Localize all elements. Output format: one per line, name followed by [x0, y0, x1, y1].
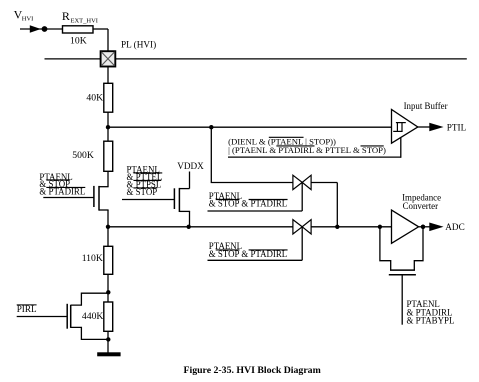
svg-text:PL (HVI): PL (HVI): [121, 40, 156, 50]
svg-text:500K: 500K: [72, 150, 94, 161]
svg-text:& STOP & PTADIRL: & STOP & PTADIRL: [209, 249, 287, 259]
svg-text:PTIL: PTIL: [447, 123, 467, 133]
svg-text:440K: 440K: [82, 311, 104, 322]
svg-text:Input Buffer: Input Buffer: [404, 101, 448, 111]
svg-text:& PTADIRL: & PTADIRL: [39, 187, 85, 197]
svg-text:PIRL: PIRL: [17, 304, 37, 314]
svg-text:VDDX: VDDX: [177, 161, 204, 171]
svg-text:Figure 2-35. HVI Block Diagram: Figure 2-35. HVI Block Diagram: [184, 365, 321, 376]
svg-text:R: R: [62, 9, 70, 23]
svg-text:110K: 110K: [82, 253, 103, 264]
svg-text:HVI: HVI: [22, 16, 34, 23]
svg-text:Converter: Converter: [403, 201, 439, 211]
svg-text:EXT_HVI: EXT_HVI: [71, 17, 98, 24]
svg-text:10K: 10K: [70, 36, 87, 47]
svg-text:& PTABYPL: & PTABYPL: [407, 316, 455, 326]
svg-text:ADC: ADC: [445, 222, 464, 232]
svg-text:& STOP: & STOP: [127, 187, 158, 197]
svg-text:40K: 40K: [86, 93, 103, 104]
svg-text:& STOP & PTADIRL: & STOP & PTADIRL: [209, 199, 287, 209]
